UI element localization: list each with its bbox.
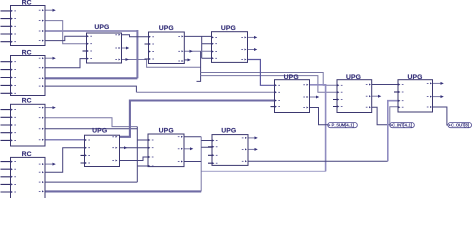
block UPG8: [148, 128, 184, 167]
wire UPG3 output3 to UPG4 input1: [248, 60, 275, 86]
wire UPG7 output1 bus up to UPG4 input3: [119, 101, 275, 137]
wire RC4 output2 to UPG7 input2: [45, 148, 85, 173]
svg-text:P_SUM[4..1]: P_SUM[4..1]: [331, 123, 354, 128]
block UPG4: [271, 74, 310, 113]
wire RC1 output2 to UPG1 input2: [45, 21, 87, 44]
wire UPG4 output2 stub: [310, 96, 320, 99]
wire RC3 output4 to UPG7 input1: [45, 139, 85, 141]
wire UPG5 output2 stub: [372, 95, 382, 98]
wire branch to UPG8 input1: [137, 139, 148, 141]
wire UPG2 output3 stub: [184, 58, 191, 61]
wire trunk branch y72.5 to UPG5 input1: [201, 73, 337, 86]
svg-text:UPG: UPG: [221, 25, 236, 32]
wire trunk branch y75.6 to UPG5 input2: [201, 76, 337, 93]
wire UPG8 output2 stub: [184, 147, 193, 150]
svg-text:UPG: UPG: [284, 74, 299, 81]
wire UPG9 output3 long run y161.3: [248, 160, 388, 162]
wire UPG3 output1 stub: [248, 36, 258, 39]
wire bus RC2 output3 horizontal run y78.3: [45, 77, 137, 79]
wire UPG7 output3 to UPG8 input3: [119, 157, 149, 161]
svg-text:C_INT[4..1]: C_INT[4..1]: [392, 123, 413, 128]
wire UPG1 output2 stub: [122, 47, 130, 50]
svg-text:UPG: UPG: [407, 74, 422, 81]
wire vertical x137.3 row3: [136, 127, 138, 183]
wire bus vertical trunk x137.4: [136, 30, 138, 78]
wire net label C_INT up to UPG6 input3: [390, 107, 398, 125]
wire trunk x200.6 vertical upper: [197, 51, 201, 81]
wire UPG1 output1 to UPG2 input1: [122, 35, 149, 37]
svg-text:RC: RC: [22, 49, 32, 56]
wire UPG8 output1 to lower trunk: [184, 136, 201, 138]
wire RC2 output2 to UPG1 input4: [45, 59, 87, 68]
wire RC4 output1 stub: [45, 163, 56, 166]
block UPG2: [145, 25, 185, 63]
block RC4: [1, 151, 46, 199]
wire branch to UPG8 input4: [137, 165, 148, 167]
svg-text:UPG: UPG: [346, 74, 361, 81]
wire RC2 output4 to UPG4 input2: [45, 86, 136, 92]
wire UPG3 output2 stub: [248, 48, 258, 51]
block RC1: [1, 0, 46, 46]
wire lower trunk vertical x201.2: [200, 137, 202, 192]
block UPG5: [333, 74, 372, 113]
wire bus RC4 output4 y191.4: [45, 190, 201, 192]
wire RC1 output4 to UPG1 input1: [45, 36, 87, 40]
net label C_INT: [390, 123, 415, 128]
wire UPG6 output3 to net label C_OUT: [433, 107, 449, 125]
block UPG9: [208, 128, 248, 166]
svg-text:UPG: UPG: [94, 24, 109, 31]
svg-text:RC: RC: [22, 151, 32, 158]
net label P_SUM: [328, 123, 358, 128]
block RC3: [1, 98, 46, 146]
block UPG3: [212, 25, 248, 63]
wire RC2 output1 stub: [45, 57, 56, 60]
svg-text:RC: RC: [22, 98, 32, 105]
wire RC3 output1 stub: [45, 106, 56, 109]
wire RC1 output1 stub: [45, 9, 56, 12]
wire UPG5 output1 to UPG6 input1: [372, 84, 398, 86]
wire UPG2 output1 to UPG3 input1: [184, 35, 211, 37]
svg-text:UPG: UPG: [221, 128, 236, 135]
wire branch x201.7 to UPG3 input2 and input4: [202, 36, 212, 58]
svg-text:UPG: UPG: [159, 25, 174, 32]
wire bus RC1 output3 horizontal run y31: [45, 30, 137, 32]
wire RC4 output3 y182.1: [45, 181, 137, 183]
svg-text:UPG: UPG: [92, 127, 107, 134]
svg-text:RC: RC: [22, 0, 32, 7]
wire UPG6 output1 stub: [433, 82, 444, 85]
block RC2: [1, 49, 46, 95]
wire vertical x389.2 up to UPG6 input2: [388, 101, 398, 162]
wire UPG6 output2 stub: [433, 95, 444, 98]
svg-text:UPG: UPG: [159, 128, 174, 135]
wire RC3 output2 jog to trunk: [45, 118, 137, 127]
wire UPG1 output3 under UPG2 to trunk: [122, 58, 201, 67]
wire taps to UPG9 input1 input2: [201, 141, 212, 148]
wire UPG4 output3 down to net label P_SUM: [310, 108, 328, 125]
block UPG1: [83, 24, 122, 63]
block UPG7: [81, 127, 120, 166]
block UPG6: [394, 74, 433, 112]
wire UPG7 output2 to UPG8 input2: [119, 146, 149, 149]
net label C_OUT: [448, 123, 472, 128]
wire branch y171.4 long light run: [201, 170, 325, 172]
wire RC3 output3 strike line y128.8: [45, 128, 137, 130]
svg-text:C_OUT[8]: C_OUT[8]: [451, 123, 470, 128]
wire UPG8 output3 to lower trunk: [184, 161, 201, 163]
wire UPG5 output3 down to net label C_INT: [372, 107, 390, 125]
wire UPG4 output1 down to y171.4 junction: [310, 85, 326, 172]
wire UPG9 output1 stub: [248, 136, 258, 139]
wire UPG9 output2 stub: [248, 148, 258, 151]
wire UPG2 output2 to UPG3 input3: [184, 50, 211, 53]
